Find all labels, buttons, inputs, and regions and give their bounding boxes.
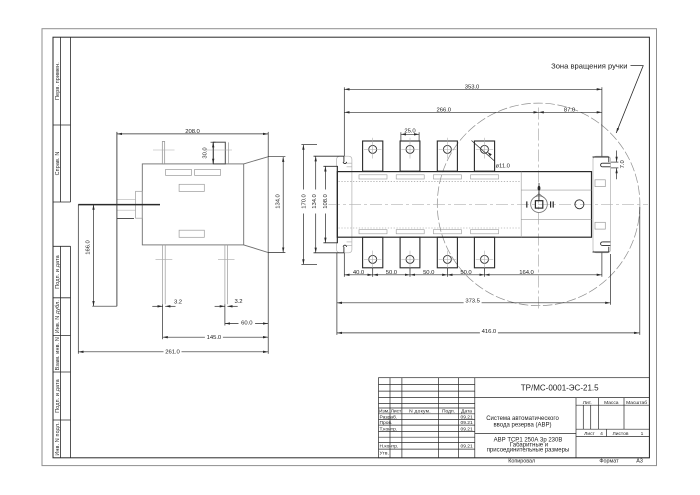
dim 134.0 left view [282,157,284,253]
top terminal centerlines [364,138,493,159]
bottom terminals [363,237,495,268]
switch handle circle [531,196,548,213]
bottom legs [163,245,228,304]
dim 373.5 [337,302,611,304]
switch shaft square [535,201,542,208]
top thin post [162,142,164,164]
svg-text:166.0: 166.0 [85,239,91,254]
dim 25.0 [401,133,419,135]
svg-text:208.0: 208.0 [185,129,200,135]
svg-text:108.0: 108.0 [323,193,329,208]
svg-text:присоединительные размеры: присоединительные размеры [487,448,570,454]
right mounting plate [593,156,611,253]
top terminals [363,141,495,171]
svg-text:Инв. N подл.: Инв. N подл. [55,422,61,456]
position mark II [550,201,551,207]
svg-text:Перв. примен.: Перв. примен. [55,62,61,100]
left mounting plate [337,156,352,253]
svg-text:261.0: 261.0 [165,350,180,356]
svg-text:30.0: 30.0 [203,147,209,159]
svg-text:87.0: 87.0 [564,107,576,113]
dim 166.0 [93,205,95,307]
svg-text:Лит.: Лит. [583,400,592,406]
svg-text:1: 1 [641,431,644,437]
top terminal holes [369,145,489,153]
svg-text:09.21: 09.21 [460,420,473,426]
indicator circle [575,200,584,209]
svg-text:3.2: 3.2 [234,299,242,305]
svg-text:Подп. и дата: Подп. и дата [55,379,61,413]
svg-text:Копировал: Копировал [508,458,535,464]
position mark I [526,201,527,207]
dim 30.0 [212,142,214,164]
right view dimensions [301,87,639,335]
svg-text:Разраб.: Разраб. [380,414,398,420]
dia 11.0 leader [472,141,495,162]
vertical centerline [538,108,540,311]
svg-text:373.5: 373.5 [465,299,480,305]
sheet outer border [42,29,657,466]
main body top view [337,172,591,238]
svg-text:Утв.: Утв. [380,451,389,457]
handle axis dark line [538,183,540,201]
svg-text:ø11.0: ø11.0 [496,164,511,170]
svg-text:Подп.: Подп. [442,409,455,415]
handle zone leader [616,66,643,133]
dims 40/50/50/50/164 [344,274,372,276]
left margin column strips [53,37,71,458]
svg-text:ввода резерва (АВР): ввода резерва (АВР) [493,422,551,428]
drawing frame [53,37,649,458]
handle shaft [78,204,160,206]
svg-text:416.0: 416.0 [482,329,497,335]
footer labels [508,458,643,464]
handle pointer dot [538,186,541,191]
svg-text:Масса: Масса [604,400,619,406]
svg-text:164.0: 164.0 [519,270,534,276]
title block texts [379,400,647,457]
bottom terminal holes [369,255,489,263]
svg-text:25.0: 25.0 [404,129,416,135]
svg-text:Листов: Листов [613,431,629,437]
dim 353.0 [344,88,602,90]
post centerlines [153,149,232,151]
svg-text:Лист: Лист [391,409,402,415]
dim 145.0 [163,336,269,338]
left margin cell labels [55,62,61,456]
svg-text:50.0: 50.0 [423,270,435,276]
inner body lines [521,172,591,238]
svg-text:Дата: Дата [461,409,472,415]
dim 3.2 right [215,305,225,307]
svg-text:266.0: 266.0 [437,107,452,113]
dim 60.0 [225,323,268,325]
dim 208.0 [117,133,268,135]
svg-text:Т.контр.: Т.контр. [380,426,398,432]
svg-text:Масштаб: Масштаб [626,400,647,406]
svg-text:Система автоматического: Система автоматического [486,416,559,422]
svg-text:170.0: 170.0 [301,193,307,208]
boss light lines [117,200,136,211]
left view dim labels [85,129,281,356]
body side view [142,157,268,253]
interior slots side view [166,169,221,237]
svg-text:Инв. N дубл.: Инв. N дубл. [55,300,61,333]
svg-text:09.21: 09.21 [460,444,473,450]
dim 261.0 [78,351,268,353]
top wide post [213,142,225,164]
left bracket slot channels [347,163,352,245]
svg-text:N докум.: N докум. [409,409,431,415]
svg-text:3.2: 3.2 [174,299,182,305]
bottom terminal centerlines [364,251,493,272]
svg-text:Зона вращения ручки: Зона вращения ручки [551,61,627,70]
horizontal centerline [328,204,648,206]
svg-text:Лист: Лист [584,431,595,437]
svg-text:Формат: Формат [599,458,619,464]
svg-text:145.0: 145.0 [207,335,222,341]
svg-text:4: 4 [600,431,603,437]
svg-text:134.0: 134.0 [275,193,281,208]
left view dimensions [78,132,285,354]
svg-text:40.0: 40.0 [353,270,365,276]
svg-text:50.0: 50.0 [460,270,472,276]
right view dim labels [300,84,626,334]
handle bar [117,132,134,306]
left bracket edges [314,156,347,253]
svg-text:7.0: 7.0 [620,160,626,169]
handle rotation zone dashed circle [437,103,640,306]
dim 3.2 left [152,305,162,307]
hidden dotted lines [339,182,522,228]
svg-text:Подп. и дата: Подп. и дата [55,255,61,289]
svg-text:Пров.: Пров. [380,420,393,426]
leg centerlines [156,258,235,260]
svg-text:Н.контр.: Н.контр. [380,444,399,450]
dim 108.0 [324,166,326,243]
svg-text:50.0: 50.0 [386,270,398,276]
svg-text:09.21: 09.21 [460,414,473,420]
svg-text:ТР/МС-0001-ЭС-21.5: ТР/МС-0001-ЭС-21.5 [521,384,599,393]
svg-text:Справ. N: Справ. N [55,152,61,176]
dim 7.0 [616,151,618,162]
dim 266.0 [344,111,538,113]
right bracket slots [595,180,605,229]
svg-text:Взам. инв. N: Взам. инв. N [55,337,61,370]
dim 87.0 [539,111,602,113]
document name [486,416,569,454]
left boss [136,191,143,218]
svg-text:А3: А3 [636,458,643,464]
svg-text:353.0: 353.0 [465,84,480,90]
switch handle peak [534,194,545,198]
dim 416.0 [337,332,639,334]
svg-text:134.0: 134.0 [312,193,318,208]
dim 170.0 [302,145,304,265]
svg-text:Изм.: Изм. [379,409,389,415]
dim 134.0 right view [315,156,317,253]
svg-text:60.0: 60.0 [241,321,253,327]
vent slots [359,175,499,234]
right bracket edges [593,157,611,252]
svg-text:09.21: 09.21 [460,426,473,432]
